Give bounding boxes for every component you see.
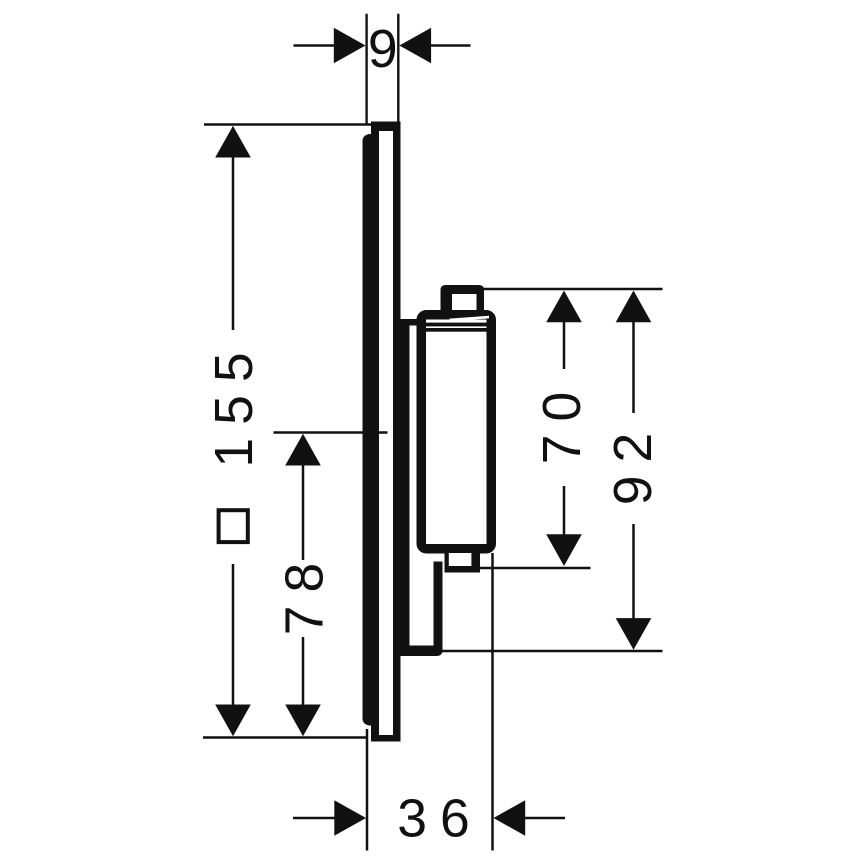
dim 155: top extension line: [204, 123, 371, 126]
bottom stop cap: [445, 553, 481, 573]
dim 92: bottom arrowhead: [616, 618, 652, 650]
dim 36: right arrowhead: [494, 800, 526, 836]
svg-text:70: 70: [533, 379, 592, 465]
lower tube right wall: [434, 562, 443, 653]
top stop cap inner: [452, 294, 477, 310]
dim 70: upper shaft: [563, 321, 566, 369]
dim 70: lower shaft: [563, 486, 566, 535]
dim 70/92: top extension line: [484, 288, 663, 291]
dim 155: square symbol: [219, 510, 248, 542]
dim 9: left extension line: [365, 14, 367, 125]
dim 70: bottom extension line: [479, 567, 591, 570]
svg-text:9: 9: [368, 20, 398, 79]
dim 70: top arrowhead: [546, 291, 582, 323]
svg-text:78: 78: [276, 550, 335, 636]
dim 155: bottom arrowhead: [215, 705, 251, 737]
dim 92: bottom extension line: [443, 650, 663, 653]
dim 9: left arrowhead: [334, 28, 366, 64]
svg-text:155: 155: [205, 339, 264, 467]
valve thread stripe 1: [424, 323, 488, 327]
wall plate front face: [363, 134, 380, 726]
dim 78: top extension line: [274, 431, 388, 434]
flange top bar: [401, 319, 423, 326]
svg-text:36: 36: [397, 790, 483, 849]
flange vertical band: [399, 319, 410, 646]
dim 70: bottom arrowhead: [546, 534, 582, 566]
bottom stop cap inner: [449, 553, 472, 566]
dim 9: right extension line: [397, 14, 399, 122]
bottom shared extension line (plate bottom): [203, 736, 368, 739]
dim 9: right arrowhead: [399, 28, 431, 64]
dim 36: left arrowhead: [334, 800, 366, 836]
dim 9: right leader line: [429, 44, 471, 47]
dim 78: lower shaft: [302, 637, 305, 705]
dim 36: right extension line: [491, 553, 494, 851]
dim 92: upper shaft: [632, 321, 635, 413]
dim 9: left leader line: [294, 44, 337, 47]
dim 36: left leader line: [293, 817, 339, 820]
dim 155: top arrowhead: [215, 126, 251, 158]
dim 78: upper shaft: [302, 464, 305, 560]
dim 155: lower shaft: [232, 564, 235, 705]
valve thread stripe 2: [424, 328, 488, 332]
lower tube bottom cap: [399, 646, 443, 657]
dim 78: top arrowhead: [285, 434, 321, 466]
dim 92: top arrowhead: [616, 291, 652, 323]
svg-text:92: 92: [604, 420, 663, 506]
dim 92: lower shaft: [632, 524, 635, 619]
dim 36: left extension line: [366, 729, 369, 851]
white sliver under cap: [450, 316, 490, 321]
dim 155: upper shaft: [232, 156, 235, 330]
valve body outline: [421, 315, 491, 549]
dim 36: right leader line: [524, 817, 565, 820]
wall plate inner channel: [379, 131, 393, 735]
top stop cap: [441, 285, 485, 317]
dim 78: bottom arrowhead: [285, 705, 321, 737]
wall plate body (side view silhouette): [371, 122, 401, 742]
